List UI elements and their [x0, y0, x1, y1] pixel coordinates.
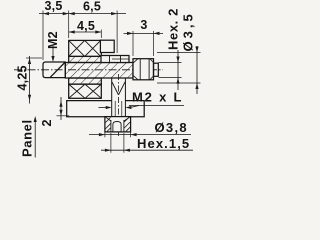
dim 4,25 (left vertical)	[29, 56, 31, 104]
thread runout diagonal on left stud	[50, 62, 65, 78]
dim 4,5	[69, 31, 102, 33]
svg-text:Hex.1,5: Hex.1,5	[137, 136, 190, 151]
svg-text:M2: M2	[46, 31, 60, 49]
right vertical dim Ø3,5	[157, 52, 201, 54]
svg-text:4,5: 4,5	[77, 19, 95, 33]
dim M2 x L arrows at stud	[99, 107, 106, 109]
dim 2 (panel thickness)	[60, 97, 62, 120]
svg-text:Hex. 2: Hex. 2	[166, 8, 181, 50]
hex socket arch	[113, 122, 121, 132]
panel (right stub)	[125, 101, 144, 117]
svg-text:3,5: 3,5	[45, 0, 63, 13]
left threaded stud M2	[43, 62, 65, 78]
washer strip right	[101, 56, 129, 63]
svg-text:M2 x L: M2 x L	[132, 90, 183, 105]
stud thread chamfer V	[112, 82, 118, 95]
right hex head Hex.2	[133, 59, 154, 80]
right vertical dim Hex.2	[159, 62, 182, 64]
nut block on body (top right)	[100, 40, 114, 52]
centerline vertical stud axis	[118, 74, 120, 136]
svg-text:3: 3	[140, 18, 147, 32]
centerline main axis	[14, 69, 163, 71]
collar hatch	[106, 118, 111, 123]
svg-text:Ø3,5: Ø3,5	[181, 11, 196, 51]
stud thread inner lines through panel	[114, 101, 116, 117]
svg-text:6,5: 6,5	[83, 0, 101, 14]
lower washer band	[69, 78, 102, 84]
svg-text:4,25: 4,25	[16, 65, 30, 90]
dim Hex.1,5	[110, 133, 112, 153]
svg-text:Panel: Panel	[20, 119, 35, 157]
upper washer band	[69, 56, 102, 62]
dim 3 (right end)	[124, 32, 164, 34]
lower hex body block (cross-hatched)	[69, 84, 102, 98]
svg-text:Ø3,8: Ø3,8	[155, 120, 188, 135]
bottom collar with hex socket	[105, 117, 131, 132]
upper hex body block (cross-hatched)	[69, 40, 102, 56]
svg-text:2: 2	[40, 119, 54, 126]
label Panel leader	[34, 121, 36, 158]
dim Ø3,8	[104, 132, 106, 137]
panel (left part)	[67, 101, 112, 117]
dim 3,5 / 6,5 top line	[39, 13, 126, 15]
main body cylinder	[65, 63, 133, 79]
vertical M2xL stud below body	[111, 78, 113, 117]
label M2 leader	[52, 46, 54, 57]
right tip	[154, 63, 159, 76]
